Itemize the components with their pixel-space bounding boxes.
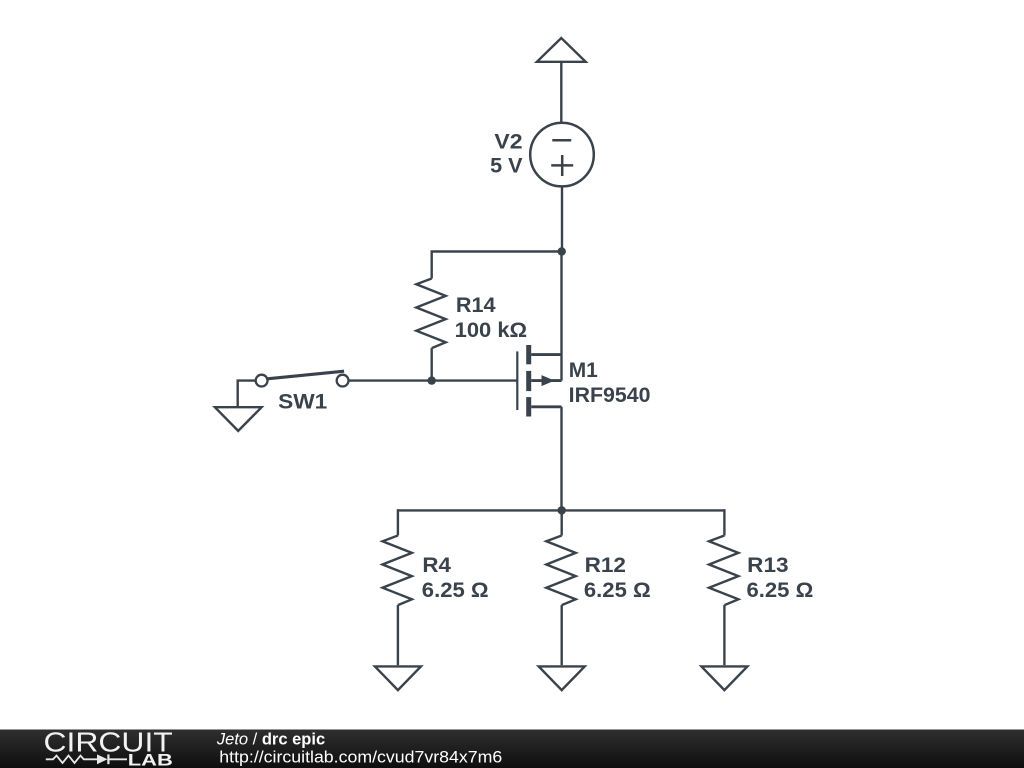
wire: [561, 186, 563, 251]
svg-text:6.25 Ω: 6.25 Ω: [584, 579, 651, 602]
wire: [397, 509, 399, 535]
resistor R12: [546, 536, 650, 606]
node: [558, 247, 566, 255]
svg-text:LAB: LAB: [128, 751, 173, 768]
wire: [560, 252, 562, 381]
svg-text:V2: V2: [494, 131, 522, 154]
svg-text:M1: M1: [569, 359, 598, 382]
wire: [560, 63, 562, 123]
svg-text:IRF9540: IRF9540: [569, 384, 651, 407]
svg-text:6.25 Ω: 6.25 Ω: [747, 579, 814, 602]
svg-text:R12: R12: [585, 554, 626, 577]
wire: [398, 509, 725, 511]
svg-text:SW1: SW1: [278, 391, 328, 414]
resistor R14: [416, 279, 527, 349]
svg-text:100 kΩ: 100 kΩ: [455, 319, 527, 342]
ground: [215, 407, 262, 431]
wire: [561, 605, 563, 665]
ground: [701, 666, 747, 690]
wire: [560, 407, 562, 511]
wire: [723, 605, 725, 665]
svg-text:R13: R13: [747, 554, 788, 577]
svg-text:http://circuitlab.com/cvud7vr8: http://circuitlab.com/cvud7vr84x7m6: [219, 749, 502, 767]
wire: [431, 348, 433, 381]
svg-text:6.25 Ω: 6.25 Ω: [422, 579, 489, 602]
logo resistor-diode doodle: [46, 754, 127, 764]
wire: [238, 381, 256, 406]
svg-text:5 V: 5 V: [490, 155, 522, 178]
power supply V+ flag: [537, 38, 586, 62]
switch SW1: [256, 371, 349, 413]
node: [428, 376, 436, 384]
ground: [539, 666, 585, 690]
resistor R13: [709, 536, 813, 606]
wire: [349, 379, 518, 381]
wire: [397, 605, 399, 665]
svg-text:R14: R14: [456, 294, 496, 317]
wire: [723, 509, 725, 535]
wire: [432, 252, 562, 279]
transistor M1: [517, 345, 650, 417]
ground: [375, 666, 421, 690]
wire: [561, 510, 563, 535]
voltage source V2: [490, 123, 594, 187]
node: [558, 506, 566, 514]
svg-text:Jeto / drc epic: Jeto / drc epic: [216, 731, 325, 749]
footer bar: [0, 730, 1024, 768]
svg-text:R4: R4: [422, 554, 451, 577]
resistor R4: [383, 536, 489, 606]
